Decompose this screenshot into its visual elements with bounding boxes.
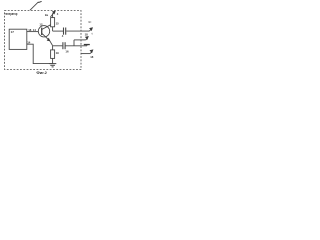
output arrow terminal 1 <box>89 27 93 31</box>
svg-text:12: 12 <box>39 22 43 26</box>
svg-text:18: 18 <box>28 28 32 32</box>
transistor Q12 <box>38 25 52 46</box>
arrow terminal 18 <box>85 36 89 40</box>
resistor R15 <box>51 18 55 27</box>
svg-text:14: 14 <box>33 28 37 32</box>
svg-text:генератор: генератор <box>5 12 18 16</box>
capacitor C16 <box>63 42 65 49</box>
svg-text:9a: 9a <box>45 13 49 17</box>
svg-text:16: 16 <box>65 49 69 53</box>
ground <box>49 64 56 67</box>
wire branch up at x74 <box>73 40 75 46</box>
leader line to label 1 <box>30 2 39 10</box>
svg-text:15: 15 <box>56 21 60 25</box>
enclosure dashed boundary <box>5 11 82 70</box>
wire R15 bottom lead <box>52 27 54 31</box>
wire R19 to ground <box>52 58 54 63</box>
wire base (pin to transistor) <box>27 31 39 33</box>
svg-text:Фиг.2: Фиг.2 <box>36 70 47 75</box>
svg-text:18: 18 <box>85 33 89 37</box>
bar terminal plate <box>84 44 90 45</box>
wire to output arrow 1 <box>66 30 89 32</box>
svg-text:19: 19 <box>56 51 60 55</box>
wire lower-right output <box>81 53 90 55</box>
svg-text:t: t <box>92 32 93 36</box>
svg-text:17: 17 <box>11 30 15 34</box>
wire emitter node to R19 <box>52 46 54 50</box>
svg-text:18: 18 <box>90 55 94 59</box>
block U17 (oscillator IC) <box>9 29 27 49</box>
wire R15 top lead <box>52 13 54 17</box>
svg-text:4: 4 <box>57 12 59 16</box>
wire to arrow terminal 18 <box>74 39 86 41</box>
wire collector output <box>53 30 63 32</box>
wire L from block pin 14 <box>27 44 53 63</box>
capacitor C4 <box>64 28 66 35</box>
label 1 (leader tick) <box>38 1 41 2</box>
svg-text:1=: 1= <box>88 20 92 24</box>
resistor R19 <box>51 50 55 59</box>
svg-text:14: 14 <box>27 40 31 44</box>
wire emitter node to C16 <box>53 45 63 47</box>
supply arrow terminal 9 <box>50 11 55 17</box>
bar terminal stub <box>86 44 88 47</box>
arrow terminal 18b <box>90 49 94 53</box>
wire C16 to bar terminal <box>66 45 88 47</box>
